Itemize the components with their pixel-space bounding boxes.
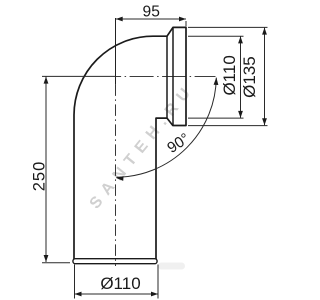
angle arc 90 degrees: [116, 78, 216, 178]
svg-text:Ø135: Ø135: [240, 56, 259, 98]
pipe elbow outline: [74, 27, 186, 259]
dimension 95 top: [116, 19, 186, 26]
watermark SANTEH.RU faint lower tile: [158, 263, 185, 270]
dimension Ø110 bottom (pipe outlet): [75, 265, 159, 299]
svg-text:95: 95: [143, 3, 161, 20]
dimension 250 left: [42, 76, 116, 262]
svg-text:250: 250: [30, 161, 48, 192]
dimension Ø135 right (flange outer): [188, 27, 268, 125]
pipe bottom rim: [73, 259, 157, 264]
centerline horizontal (socket axis): [116, 75, 216, 77]
dimension Ø110 right (socket bore): [188, 36, 244, 118]
socket edge line x=173: [172, 27, 174, 125]
svg-text:Ø110: Ø110: [100, 274, 140, 293]
socket edge line x=167: [166, 36, 168, 118]
svg-text:Ø110: Ø110: [220, 55, 239, 95]
centerline vertical (pipe axis): [115, 18, 117, 84]
